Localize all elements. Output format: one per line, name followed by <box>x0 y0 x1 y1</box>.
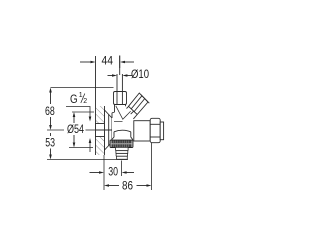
svg-text:86: 86 <box>122 179 133 193</box>
hose union nut <box>110 140 133 148</box>
dim 44 <box>80 61 93 63</box>
flange centerline <box>96 129 112 131</box>
body bottom skirt <box>112 132 115 140</box>
svg-text:44: 44 <box>102 54 114 68</box>
end chamfer line <box>141 94 150 103</box>
svg-text:68: 68 <box>45 104 55 118</box>
body fill <box>112 105 137 143</box>
hose barb <box>116 148 129 160</box>
pipe centerline top <box>119 56 121 76</box>
body fork V <box>116 106 131 120</box>
flange <box>105 110 113 150</box>
svg-text:Ø54: Ø54 <box>67 122 84 136</box>
angled port 45deg <box>127 93 150 119</box>
svg-text:2: 2 <box>83 98 87 105</box>
body waist arc <box>114 130 131 132</box>
wall hatch lower <box>96 137 105 156</box>
compression nut top <box>114 92 127 105</box>
neck <box>127 106 129 108</box>
body outline <box>112 105 115 113</box>
dim 68 <box>51 87 114 89</box>
nipple G1/2 <box>96 124 105 137</box>
wall back line <box>104 106 106 155</box>
wall face line <box>95 56 97 155</box>
nut quad <box>129 93 149 115</box>
svg-text:Ø10: Ø10 <box>131 67 149 81</box>
G1/2 leader <box>66 107 90 119</box>
pipe walls <box>116 74 118 92</box>
right port <box>134 121 150 141</box>
dim O54 <box>72 111 94 113</box>
dim O10 arrows <box>108 75 115 77</box>
lower edge extension to right port <box>133 115 137 119</box>
dim 30 <box>103 155 105 190</box>
svg-text:30: 30 <box>108 165 118 179</box>
dim 86 <box>151 143 153 190</box>
wall hatch upper <box>96 106 105 124</box>
svg-text:1: 1 <box>79 92 83 99</box>
svg-text:53: 53 <box>45 136 55 150</box>
dim 53 <box>47 129 64 131</box>
labels <box>45 54 149 193</box>
svg-text:G: G <box>70 92 78 106</box>
